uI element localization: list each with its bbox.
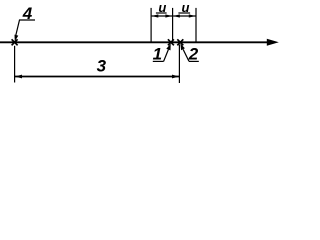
label u left underline <box>156 12 167 14</box>
label u right underline <box>178 12 190 14</box>
leader line for label 2 <box>183 49 189 61</box>
extension tick right (u dimension) <box>195 8 197 42</box>
u left segment right arrowhead <box>165 14 172 17</box>
label 1 underline <box>153 60 164 62</box>
u right segment right arrowhead <box>189 14 196 17</box>
u right segment left arrowhead <box>173 14 180 17</box>
dimension 3 left arrowhead <box>15 75 22 79</box>
dimension 3 right arrowhead <box>172 75 179 79</box>
extension line left (dimension 3) <box>14 46 16 83</box>
dimension line u right segment <box>173 15 195 17</box>
leader 2 arrowhead <box>180 44 185 51</box>
leader line for label 4 <box>15 20 35 38</box>
point marker 1 (x cross) <box>168 39 174 45</box>
extension line right (dimension 3) <box>178 45 180 84</box>
dimension line u left segment <box>152 15 173 17</box>
axis arrowhead <box>267 39 279 46</box>
point marker 2 (x cross) <box>177 39 183 45</box>
dimension line 3 <box>15 76 180 78</box>
label 2 underline <box>189 60 199 62</box>
leader 4 arrowhead <box>15 35 19 42</box>
leader 1 arrowhead <box>166 44 170 51</box>
axis line (horizontal datum) <box>0 41 270 43</box>
u left segment left arrowhead <box>152 14 159 17</box>
extension tick middle (u dimension) <box>172 8 174 42</box>
extension tick left (u dimension) <box>150 8 152 42</box>
point marker left (x cross) <box>12 39 18 45</box>
svg-text:3: 3 <box>97 57 107 76</box>
leader line for label 1 <box>164 50 169 62</box>
